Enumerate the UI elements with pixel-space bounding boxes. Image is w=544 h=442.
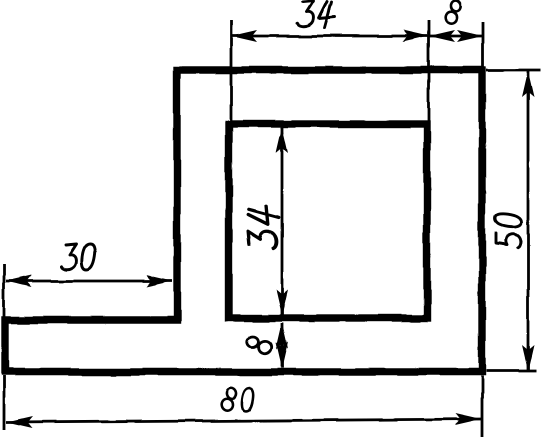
dimension 8 wall vertical xyxy=(276,323,288,368)
dimension 50 right xyxy=(522,71,534,371)
label 30 left xyxy=(61,244,95,270)
extension line outer-right up xyxy=(482,22,485,67)
extension line 30 left up xyxy=(3,264,6,318)
extension line 80 left down xyxy=(3,376,6,430)
label 8 top xyxy=(445,0,463,25)
dimension 34 top xyxy=(231,30,429,42)
label 80 bottom xyxy=(220,387,254,412)
dimension 30 left xyxy=(6,275,172,287)
extension line 80 right down xyxy=(481,376,484,437)
dimension 80 bottom xyxy=(6,413,481,429)
part outline xyxy=(5,70,482,372)
extension line 50 top xyxy=(486,69,541,72)
label 34 top xyxy=(298,1,336,28)
dimension 8 top xyxy=(429,30,483,42)
label 34 pocket xyxy=(248,205,279,249)
extension line 50 bottom xyxy=(486,370,536,373)
label 8 wall xyxy=(246,335,273,354)
label 50 right xyxy=(496,214,522,248)
inner pocket xyxy=(229,124,427,318)
dimension 34 pocket vertical xyxy=(276,127,288,315)
extension line pocket-left up xyxy=(230,20,233,124)
extension line pocket-right up xyxy=(428,20,431,124)
